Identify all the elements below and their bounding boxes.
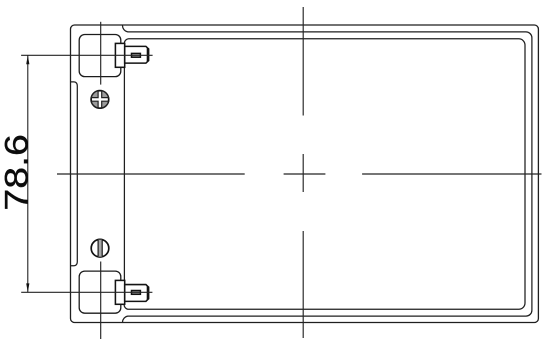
dimension line 78.6 (27, 55, 29, 292)
screw S2 head (slotted, bottom) (91, 239, 109, 257)
faston tab T2 dimple (132, 291, 141, 295)
dimension arrow bottom (26, 283, 29, 292)
main vertical centerline (302, 7, 304, 338)
faston tab T2 base (115, 280, 124, 304)
terminal housing T1 (top) (79, 35, 121, 77)
terminal T1 vertical centerline (100, 22, 102, 85)
faston tab T2 blade tip thick edge (147, 286, 149, 299)
terminal T2 vertical centerline (100, 262, 102, 340)
faston tab T1 dimple (132, 53, 141, 57)
battery case outer outline (71, 25, 539, 323)
terminal T2 horizontal centerline / extension line (21, 291, 152, 293)
svg-text:78.6: 78.6 (0, 134, 35, 211)
faston tab T2 blade (125, 285, 149, 302)
screw S1 head (phillips, top) (91, 91, 109, 109)
faston tab T1 blade tip thick edge (147, 48, 149, 61)
left wall inner line with end steps (71, 82, 78, 266)
faston tab T1 blade (125, 46, 149, 63)
cover seam line (122, 25, 531, 322)
dimension arrow top (26, 55, 29, 64)
terminal housing T2 (bottom) (79, 271, 121, 313)
case inner edge line / front plate edge (124, 39, 525, 310)
main horizontal centerline (57, 173, 542, 175)
terminal T1 horizontal centerline / extension line (21, 54, 153, 56)
faston tab T1 base (115, 43, 124, 67)
